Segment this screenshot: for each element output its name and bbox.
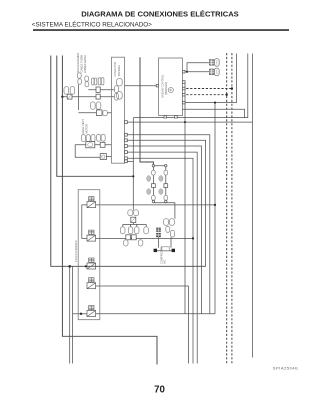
relay box RB2 xyxy=(96,110,102,116)
fuse F4 xyxy=(87,278,96,289)
connector C41 xyxy=(128,227,132,234)
node J1 junction dot xyxy=(61,96,63,98)
wire short vertical xyxy=(77,84,79,110)
connector C13 strip side xyxy=(114,86,118,93)
svg-text:DIAGRAMA DE CONEXIONES ELÉCTRI: DIAGRAMA DE CONEXIONES ELÉCTRICAS xyxy=(81,9,239,18)
fuse F5 xyxy=(87,306,96,317)
pin P6 xyxy=(125,157,128,160)
svg-text:BATERIA: BATERIA xyxy=(117,65,121,76)
wire dashed module to CAN-H xyxy=(182,94,226,96)
connector E2 (grid) xyxy=(209,69,214,75)
svg-text:SALVAGUARDA: SALVAGUARDA xyxy=(76,53,80,73)
node junction dot h2 xyxy=(184,121,186,123)
wire fuse4 output bus2 xyxy=(96,286,189,364)
pin M1 right r1 xyxy=(182,70,185,73)
node cluster top-right xyxy=(165,165,167,167)
node dot CAN-H tap xyxy=(226,94,228,96)
wire dashed CAN-L vertical xyxy=(231,53,233,365)
svg-text:PLACA FUSIBLES: PLACA FUSIBLES xyxy=(74,240,78,262)
fuse F3 xyxy=(87,258,96,269)
wire K2 to strip xyxy=(106,156,111,158)
connector C44 xyxy=(124,240,128,246)
connector C32 xyxy=(164,170,168,175)
lamp L4 xyxy=(159,189,163,195)
switch box S1 xyxy=(152,184,156,188)
wire fuse2 output xyxy=(96,237,193,239)
wire pin5 staircase xyxy=(127,146,201,314)
control module M1 xyxy=(159,58,183,116)
node junction connectors xyxy=(186,71,188,73)
node dot fuse5 feed xyxy=(80,313,82,315)
wire strip to module xyxy=(125,85,157,87)
wire trunk B1 (battery feed left) xyxy=(51,56,206,267)
wire drop D1 xyxy=(69,266,71,363)
wire right vertical R2 with bus h1 xyxy=(133,54,248,118)
wire module ground row xyxy=(182,102,236,104)
pin P5 xyxy=(125,151,128,154)
pin P1 xyxy=(125,121,128,124)
wire fuse internal rail xyxy=(82,205,87,239)
fuse F2 xyxy=(87,230,96,241)
svg-text:A/C: A/C xyxy=(163,260,167,264)
wire pin3 staircase xyxy=(127,135,210,314)
wire fuse5 feed xyxy=(73,313,87,315)
lamp L3 xyxy=(159,176,163,182)
node cluster bottom-left xyxy=(152,200,154,202)
pin P4 xyxy=(125,145,128,148)
wire trunk B2 xyxy=(57,56,134,177)
connector C40 xyxy=(120,227,125,234)
junction connector strip J/C xyxy=(112,57,125,163)
connector C12 strip side xyxy=(114,93,118,100)
symbol inside M1 xyxy=(168,87,173,92)
fuse grid G1 xyxy=(156,228,161,232)
connector C14 xyxy=(77,73,81,78)
connector row C23 xyxy=(91,135,95,142)
connector E2 oval xyxy=(215,68,220,76)
fusible link FL1 xyxy=(67,94,72,99)
relay box RB1 on W1 xyxy=(96,87,100,92)
connector C16 xyxy=(85,76,89,81)
wire K1 loop xyxy=(75,145,100,157)
fan circuit connector pair top xyxy=(128,210,133,216)
pin M1 right r3 xyxy=(182,87,185,90)
pin M1 right r2 xyxy=(182,81,185,84)
wire pin6 staircase xyxy=(127,152,197,363)
svg-text:(MODULO): (MODULO) xyxy=(164,82,168,95)
wire module pin row2 xyxy=(182,71,209,73)
wire W2 fusible link row xyxy=(62,96,114,98)
svg-text:CONEX MASA: CONEX MASA xyxy=(83,55,87,73)
pin M1 bottom b1 xyxy=(164,116,167,118)
pin M1 right r4 xyxy=(182,93,185,96)
svg-text:UNIDAD CONTROL: UNIDAD CONTROL xyxy=(161,74,165,98)
svg-text:SPIA2504E: SPIA2504E xyxy=(273,365,299,370)
relay K1 xyxy=(86,142,95,148)
relay box RB0 on W2 xyxy=(96,94,100,99)
connector C47 xyxy=(171,230,175,237)
wire dashed CAN-H vertical xyxy=(226,53,228,365)
wire P7 jog xyxy=(127,160,133,162)
wire module pin row3 down xyxy=(182,82,185,314)
connector E1 (grid) xyxy=(209,60,214,66)
switch box S2 xyxy=(164,184,168,188)
wire fuse1 output xyxy=(96,204,215,206)
node junction dot on B2 corner xyxy=(132,175,134,177)
connector E1 oval xyxy=(215,59,220,67)
wire right vertical R1 xyxy=(236,54,238,103)
node dot on ground row xyxy=(214,102,216,104)
connector pair B xyxy=(98,78,101,85)
wire right vertical R3 with bus h2 xyxy=(251,54,253,358)
node dot bus1 fuse3 xyxy=(85,265,87,267)
connector C17 xyxy=(85,82,89,87)
pin M1 left xyxy=(156,85,158,87)
connector C43 xyxy=(144,227,149,234)
connector row C22 xyxy=(86,135,90,142)
svg-text:70: 70 xyxy=(154,384,165,395)
connector C15 xyxy=(78,79,82,84)
wire W3 row xyxy=(78,112,96,114)
header xyxy=(32,9,289,31)
connector row C24 xyxy=(97,134,101,141)
node cluster bottom-right xyxy=(165,200,167,202)
connector row C24b xyxy=(101,134,105,141)
lamp L2 xyxy=(147,189,151,195)
connector C11 xyxy=(70,87,74,95)
svg-text:CONECTOR: CONECTOR xyxy=(113,62,117,77)
terminal T1 xyxy=(154,249,157,252)
pin P7 xyxy=(125,160,128,163)
wire module pin jog to bus xyxy=(182,109,244,117)
svg-text:CABLE FUSIB: CABLE FUSIB xyxy=(80,55,84,73)
diode box DX xyxy=(131,217,136,222)
wire trunk B3 xyxy=(62,56,157,365)
lamp cluster rails xyxy=(153,164,175,218)
connector C46 xyxy=(166,226,170,232)
pin M1 bottom b2 xyxy=(175,116,178,118)
connector C42 xyxy=(135,227,139,234)
node dot fuse2 tap xyxy=(192,237,194,239)
wire thick feed to lamp cluster xyxy=(140,57,153,164)
wire K1 to strip xyxy=(95,144,112,146)
pin P2 xyxy=(125,133,128,136)
pin P3 xyxy=(125,139,128,142)
wire W1 xyxy=(88,89,114,91)
contact box K1b xyxy=(100,142,105,147)
wire compressor drops xyxy=(159,237,172,247)
wire vertical to fan sub-circuit xyxy=(132,118,134,211)
connector row C21 xyxy=(81,135,85,142)
wire drop D2 xyxy=(72,266,74,363)
fuse F1 xyxy=(87,197,96,208)
connector C33 xyxy=(164,195,168,200)
lamp L1 xyxy=(147,176,151,182)
connector C30 xyxy=(152,170,156,175)
svg-text:RELE VENT: RELE VENT xyxy=(81,119,85,134)
wire pin7 staircase xyxy=(127,158,193,363)
connector C45 xyxy=(138,240,142,246)
node on bus at D1 xyxy=(69,265,71,267)
connector C25 inside strip xyxy=(117,78,123,86)
wire vertical from ground row xyxy=(214,103,216,314)
wire dashed module to CAN-L xyxy=(182,88,232,90)
fuse block J/B xyxy=(78,190,100,320)
wire W3 to strip xyxy=(107,112,111,114)
svg-text:<SISTEMA ELÉCTRICO RELACIONADO: <SISTEMA ELÉCTRICO RELACIONADO> xyxy=(32,19,152,28)
svg-text:MOTOR: MOTOR xyxy=(85,124,89,134)
node cluster top-left xyxy=(152,165,154,167)
pin M1 right r5 xyxy=(182,101,185,104)
node dot CAN-L tap xyxy=(231,87,233,89)
connector C10 xyxy=(64,87,69,95)
connector C31 xyxy=(152,195,156,200)
wire pin4 staircase xyxy=(127,140,205,266)
fuse grid G2 xyxy=(156,233,161,237)
connector C20 xyxy=(103,110,108,115)
wire fuse5 output bus3 xyxy=(96,313,215,315)
relay box K2 xyxy=(100,154,106,160)
compressor connector pair xyxy=(164,219,169,226)
connector C18 xyxy=(91,102,96,109)
connector C26 inside strip xyxy=(117,92,123,100)
terminal T2 xyxy=(172,249,175,252)
thermal protector bracket xyxy=(154,250,175,252)
motor box MB1 xyxy=(126,235,131,240)
connector pair A xyxy=(92,78,94,85)
fan circuit rail xyxy=(123,223,146,227)
connector C19 xyxy=(96,102,101,109)
motor box MB2 xyxy=(132,235,137,240)
wire from module pin to connectors E1/E2 xyxy=(187,63,210,72)
